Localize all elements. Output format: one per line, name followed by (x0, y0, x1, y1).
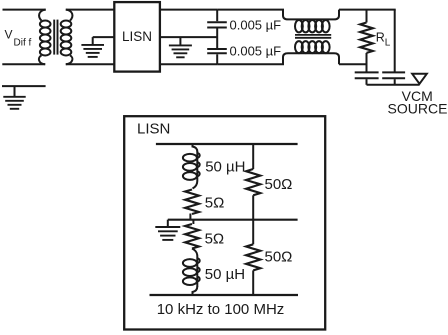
svg-text:0.005 µF: 0.005 µF (230, 44, 282, 59)
svg-text:Dif f: Dif f (14, 37, 32, 48)
svg-text:LISN: LISN (122, 29, 152, 44)
svg-text:0.005 µF: 0.005 µF (230, 17, 282, 32)
svg-text:V: V (5, 28, 13, 42)
svg-text:SOURCE: SOURCE (388, 101, 448, 117)
svg-text:50Ω: 50Ω (265, 176, 293, 193)
svg-text:50 µH: 50 µH (205, 266, 245, 283)
svg-text:10 kHz to 100 MHz: 10 kHz to 100 MHz (157, 301, 285, 318)
svg-text:L: L (385, 38, 391, 49)
svg-text:LISN: LISN (137, 121, 170, 138)
svg-text:5Ω: 5Ω (205, 194, 225, 211)
svg-text:R: R (376, 30, 385, 44)
svg-text:50 µH: 50 µH (205, 159, 245, 176)
svg-text:50Ω: 50Ω (265, 248, 293, 265)
svg-text:5Ω: 5Ω (205, 230, 225, 247)
